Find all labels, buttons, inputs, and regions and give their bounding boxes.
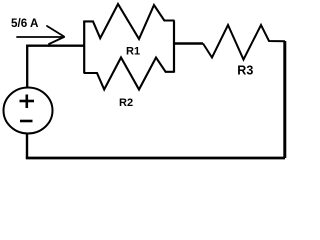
- wire: bottom rail: [26, 157, 285, 160]
- voltage source V1: [4, 88, 53, 134]
- current direction arrow: [17, 26, 64, 44]
- svg-text:5/6 A: 5/6 A: [11, 17, 39, 30]
- resistor R2: [84, 58, 175, 90]
- wire: parallel network to R3 (node B): [174, 42, 203, 44]
- svg-text:R2: R2: [119, 97, 133, 109]
- resistor R3: [203, 25, 285, 60]
- wire: source top to parallel network (node A): [27, 46, 84, 87]
- resistor R1: [84, 4, 175, 39]
- wire: right riser: [283, 41, 286, 158]
- node bar: parallel right: [173, 21, 175, 73]
- wire: source bottom stub: [26, 133, 28, 159]
- node bar: parallel left: [83, 21, 85, 74]
- svg-text:R1: R1: [126, 45, 140, 57]
- svg-text:R3: R3: [237, 63, 253, 77]
